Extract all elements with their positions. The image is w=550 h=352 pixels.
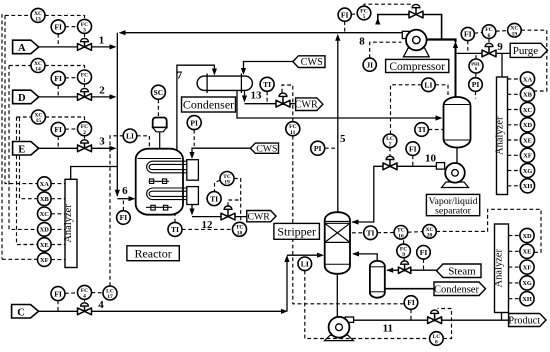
svg-text:11: 11 xyxy=(383,323,393,335)
signal wire analyzer to XH xyxy=(508,185,521,187)
wire feed collector header xyxy=(116,33,118,196)
svg-text:Compressor: Compressor xyxy=(389,61,445,73)
analyzer element XF (product) xyxy=(520,260,534,274)
svg-text:XG: XG xyxy=(523,168,533,175)
analyzer element XD (product) xyxy=(520,228,534,242)
analyzer box (feed analyzer) xyxy=(63,179,77,267)
reactor agitator motor xyxy=(153,118,167,128)
svg-text:CWR: CWR xyxy=(248,211,271,222)
signal wire TI to line 13 xyxy=(266,91,268,103)
signal wire FI to line 10 xyxy=(412,155,414,166)
svg-text:11: 11 xyxy=(290,130,295,136)
signal wire FC6 to purge valve xyxy=(488,38,490,44)
signal wire FC9 to TC16 xyxy=(403,239,405,244)
signal wire FI to line 3 xyxy=(57,136,59,148)
svg-text:17: 17 xyxy=(107,294,113,300)
svg-text:19: 19 xyxy=(224,180,230,186)
svg-text:FI: FI xyxy=(420,248,428,257)
signal wire analyzer to XA xyxy=(508,78,521,80)
signal wire XB branch xyxy=(20,118,38,199)
label Purge xyxy=(510,43,547,57)
compressor body xyxy=(402,31,409,38)
svg-text:XH: XH xyxy=(522,296,532,303)
reactor agitator impeller xyxy=(149,179,169,184)
signal wire FC6-XC19 xyxy=(496,30,508,33)
svg-text:D: D xyxy=(18,93,26,104)
svg-text:15: 15 xyxy=(36,118,42,124)
controller XC14 xyxy=(31,59,45,73)
indicator LI reactor level xyxy=(123,129,137,143)
valve purge (stream 9) xyxy=(482,43,496,56)
svg-text:LI: LI xyxy=(126,132,134,141)
wire stripper overhead stream 5 xyxy=(337,39,339,212)
controller TC19 reactor temperature xyxy=(220,172,234,186)
alarm PHL6 pressure high-low xyxy=(469,59,483,73)
valve D feed (stream 2) xyxy=(78,88,92,100)
svg-text:CWR: CWR xyxy=(295,100,318,111)
svg-text:20: 20 xyxy=(427,233,433,239)
analyzer element XG (purge) xyxy=(520,163,534,177)
signal wire LC17 up to reactor LI xyxy=(110,136,123,286)
svg-text:4: 4 xyxy=(83,294,86,300)
valve condenser cooling water (stream 13) xyxy=(276,93,290,107)
analyzer element XF (feed) xyxy=(38,253,52,267)
reactor agitator shaft xyxy=(159,132,161,150)
controller FC2 xyxy=(78,122,92,136)
analyzer element XD (feed) xyxy=(38,223,52,237)
indicator PI reactor pressure xyxy=(187,116,201,130)
signal wire FC5 to bypass valve xyxy=(364,4,411,6)
controller LC8 stripper level xyxy=(430,332,444,346)
svg-text:Analyzer: Analyzer xyxy=(63,204,74,243)
svg-text:E: E xyxy=(18,144,25,155)
svg-text:16: 16 xyxy=(398,234,404,240)
valve A feed (stream 1) xyxy=(78,38,92,50)
analyzer box (purge analyzer) xyxy=(494,77,507,195)
signal wire LI to reactor top xyxy=(137,136,150,148)
signal wire FC2 to valve xyxy=(84,136,86,139)
svg-text:FI: FI xyxy=(54,74,62,83)
indicator FI purge xyxy=(461,27,474,40)
svg-text:3: 3 xyxy=(83,28,86,34)
svg-text:9: 9 xyxy=(497,41,503,53)
signal wire FC4-LC17 xyxy=(91,292,103,294)
svg-text:C: C xyxy=(17,307,25,318)
svg-text:6: 6 xyxy=(122,185,128,197)
svg-text:TI: TI xyxy=(210,194,218,203)
wire purge line stream 9 xyxy=(456,52,511,54)
controller FC5 recycle xyxy=(357,6,371,20)
svg-text:XG: XG xyxy=(522,280,532,287)
indicator FI stream 2 xyxy=(51,71,65,85)
wire CWS to reactor coil header xyxy=(192,148,250,153)
signal wire FI to product line xyxy=(410,309,412,320)
signal wire analyzer to XG xyxy=(508,170,521,172)
analyzer element XF (purge) xyxy=(520,148,534,162)
analyzer element XB (feed) xyxy=(38,192,52,206)
svg-text:TI: TI xyxy=(171,225,179,234)
signal wire PI to reactor xyxy=(193,130,195,146)
indicator FI stream 6 xyxy=(117,211,131,225)
reboiler weld seams xyxy=(370,266,385,268)
indicator TI reactor temperature xyxy=(207,192,221,206)
indicator PI separator pressure xyxy=(469,78,483,92)
indicator JI compressor power xyxy=(363,58,376,71)
signal wire SC to agitator motor xyxy=(157,99,159,117)
signal wire LI to LC8 xyxy=(305,271,430,339)
signal wire FC11 to valve 13 actuator xyxy=(282,85,293,122)
analyzer element XH (product) xyxy=(520,292,534,306)
controller XC20 composition xyxy=(423,225,437,239)
valve steam (stream 9 heat) xyxy=(398,261,410,273)
indicator FI product xyxy=(404,296,418,310)
svg-text:TI: TI xyxy=(263,80,271,89)
svg-text:PI: PI xyxy=(472,80,480,89)
signal wire analyzer to XE xyxy=(508,139,521,141)
signal wire FI-FC4 xyxy=(65,292,78,295)
signal wire FI to stream 8 line xyxy=(344,21,346,32)
svg-text:Steam: Steam xyxy=(448,265,476,277)
signal wire XE to XC15 xyxy=(17,117,38,245)
svg-text:19: 19 xyxy=(512,31,518,37)
svg-text:JI: JI xyxy=(366,60,373,69)
svg-text:8: 8 xyxy=(435,340,438,346)
controller LC17 xyxy=(103,286,117,300)
svg-text:Purge: Purge xyxy=(513,45,539,57)
svg-text:2: 2 xyxy=(99,85,105,97)
signal wire FC11 down to FI stream 11 xyxy=(293,136,404,304)
compressor recycle bypass line xyxy=(378,15,442,40)
signal wire LC8 to product valve xyxy=(438,309,452,339)
compressor label xyxy=(386,59,449,72)
svg-text:CWS: CWS xyxy=(301,57,323,68)
indicator FI stream 10 xyxy=(406,142,420,156)
signal wire FC1 to valve xyxy=(84,84,86,87)
wire compressor suction from separator xyxy=(426,40,456,43)
svg-text:FI: FI xyxy=(409,144,417,153)
valve E feed (stream 3) xyxy=(78,140,92,152)
label Condenser (condensate) xyxy=(434,282,486,296)
signal wire analyzer to XE product xyxy=(509,250,521,252)
signal wire LC7 to valve 10 xyxy=(389,148,391,157)
indicator FI recycle xyxy=(338,8,351,21)
signal wire XC20 to product analyzer XE xyxy=(436,209,541,252)
separator bottoms pump xyxy=(436,148,468,188)
svg-text:2: 2 xyxy=(83,130,86,136)
sample line purge to analyzer xyxy=(501,53,503,77)
svg-text:Analyzer: Analyzer xyxy=(494,248,505,287)
svg-text:TI: TI xyxy=(418,125,426,134)
analyzer element XC (purge) xyxy=(520,102,534,116)
svg-text:1: 1 xyxy=(83,78,86,84)
svg-text:XB: XB xyxy=(523,92,533,99)
wire CWS into condenser xyxy=(244,62,293,70)
controller FC3 xyxy=(78,19,92,33)
indicator FI steam xyxy=(417,246,431,260)
label CWS reactor cooling water supply xyxy=(250,143,278,154)
svg-text:A: A xyxy=(18,43,26,54)
svg-text:separator: separator xyxy=(435,205,472,216)
svg-text:10: 10 xyxy=(425,153,437,165)
signal wire FI-FC5 xyxy=(351,13,357,16)
svg-text:SC: SC xyxy=(154,88,164,97)
signal wire analyzer to XF product xyxy=(509,266,521,268)
indicator LI separator level xyxy=(422,78,436,92)
controller FC1 xyxy=(78,70,92,84)
signal wire analyzer to XD product xyxy=(509,235,521,237)
vapor/liquid separator vessel xyxy=(444,97,471,148)
svg-text:Reactor: Reactor xyxy=(134,246,171,260)
signal wire XC13 to FC3 xyxy=(45,15,85,19)
svg-text:4: 4 xyxy=(98,299,104,311)
analyzer element XB (purge) xyxy=(520,87,534,101)
controller XC19 purge xyxy=(508,23,522,37)
indicator FI stream 1 xyxy=(51,20,65,34)
signal wire FI-FC2 xyxy=(65,128,78,130)
reactor coil header upper xyxy=(187,160,199,181)
svg-text:FI: FI xyxy=(54,125,62,134)
svg-text:5: 5 xyxy=(363,14,366,20)
controller LC7 separator level xyxy=(383,134,397,148)
svg-text:TI: TI xyxy=(366,229,374,238)
wire stripper bottoms to pump xyxy=(336,274,338,318)
signal wire analyzer to XD xyxy=(508,124,521,126)
signal wire TC19 to TI xyxy=(215,180,221,191)
wire condenser CW outlet stream 13 xyxy=(244,91,246,97)
sample line from feed header to analyzer xyxy=(71,167,118,180)
controller TC18 cooling water xyxy=(233,222,247,236)
signal wire analyzer to XH product xyxy=(509,298,521,300)
analyzer element XG (product) xyxy=(520,276,534,290)
svg-text:18: 18 xyxy=(237,231,243,237)
stripper reboiler vessel xyxy=(370,261,385,298)
svg-text:XA: XA xyxy=(523,76,533,83)
svg-text:Product: Product xyxy=(508,315,540,326)
signal wire XD to XC14 xyxy=(9,66,37,230)
signal wire XC19 to analyzer XB xyxy=(521,30,547,91)
analyzer element XE (feed) xyxy=(38,238,52,252)
svg-text:7: 7 xyxy=(177,70,183,82)
svg-text:LI: LI xyxy=(424,81,432,90)
wire condenser process outlet to separator xyxy=(237,91,437,118)
signal wire XC15 to FC2 xyxy=(45,117,84,122)
signal wire TI-TC16 xyxy=(377,232,394,234)
wire steam line to reboiler xyxy=(387,269,437,271)
feed label E (stream 3) xyxy=(13,142,39,156)
wire reactor feed line 6 xyxy=(117,198,129,200)
signal wire PHL6 to purge line xyxy=(475,53,477,59)
signal wire analyzer to XF xyxy=(508,154,521,156)
condenser heat exchanger shell xyxy=(197,76,252,90)
svg-text:XH: XH xyxy=(523,183,533,190)
signal wire XC to analyzer xyxy=(51,213,65,215)
condenser tube sheet right xyxy=(240,74,242,94)
signal wire XE to analyzer xyxy=(51,244,65,246)
vapor/liquid separator label xyxy=(426,194,479,215)
signal bus from analyzer XF to XC13 region (far left) xyxy=(1,14,3,259)
wire feed line 4 to stripper riser xyxy=(39,310,282,312)
indicator FI stream 4 xyxy=(51,287,65,301)
signal wire FI-FC6 xyxy=(474,31,482,34)
signal wire XA to analyzer xyxy=(51,183,65,185)
analyzer box (product analyzer) xyxy=(494,224,509,313)
reactor bottom baffles xyxy=(146,205,172,210)
indicator TI reactor outlet xyxy=(168,222,182,236)
svg-text:XE: XE xyxy=(523,249,532,256)
svg-text:14: 14 xyxy=(35,67,41,73)
controller FC4 xyxy=(78,285,92,299)
signal wire LI to LC7 xyxy=(391,85,422,134)
signal wire bus stub to XF xyxy=(2,258,37,260)
wire separator vapor riser xyxy=(455,44,457,98)
wire feed line 2 xyxy=(39,96,111,98)
indicator PI stripper pressure xyxy=(311,141,325,155)
signal wire XB to analyzer xyxy=(51,198,65,200)
svg-text:XD: XD xyxy=(522,233,532,240)
svg-text:PI: PI xyxy=(190,118,198,127)
signal wire XC14 to FC1 xyxy=(45,66,85,70)
stripper top seam xyxy=(325,220,350,222)
svg-text:CWS: CWS xyxy=(256,144,277,155)
svg-text:XC: XC xyxy=(40,211,50,218)
svg-text:XA: XA xyxy=(40,181,50,188)
signal wire FI to line 1 xyxy=(57,34,59,47)
analyzer element XA (purge) xyxy=(520,72,534,86)
indicator TI stripper temperature xyxy=(364,226,378,240)
svg-text:FI: FI xyxy=(407,298,415,307)
svg-text:6: 6 xyxy=(488,33,491,39)
label CWR condenser cooling water return xyxy=(295,98,323,111)
signal wire FI to line 2 xyxy=(57,85,59,97)
valve separator liquid (stream 10) xyxy=(383,156,397,169)
svg-text:5: 5 xyxy=(340,133,346,145)
signal wire FI-FC1 xyxy=(65,77,78,79)
wire feed line 1 xyxy=(39,46,111,48)
feed label C (stream 4) xyxy=(12,305,39,319)
wire reactor coil to CWR (stream 12) xyxy=(191,205,193,211)
svg-text:Analyzer: Analyzer xyxy=(494,116,505,155)
signal wire FC3 to valve xyxy=(84,33,86,37)
valve product (stream 11) xyxy=(428,310,442,324)
indicator TI separator temperature xyxy=(415,123,429,137)
reactor top weld seam xyxy=(138,158,182,160)
reactor cooling coil upper xyxy=(147,161,187,173)
controller TC16 stripper temperature xyxy=(394,226,408,240)
signal wire TC19 to TC18 xyxy=(234,179,241,223)
indicator SC agitator speed xyxy=(151,85,165,99)
svg-text:FI: FI xyxy=(464,30,472,39)
svg-text:XE: XE xyxy=(523,137,532,144)
wire feed line 3 xyxy=(39,147,111,149)
signal wire JI to compressor xyxy=(370,42,402,58)
signal wire PI to separator xyxy=(475,91,477,98)
signal wire TI reactor to vessel xyxy=(174,215,176,223)
stripper column vessel xyxy=(325,212,350,274)
signal wire TI to TC18 (stream 12 row) xyxy=(182,228,233,230)
analyzer element XE (product) xyxy=(520,244,534,258)
stripper bottoms pump xyxy=(325,317,354,341)
signal wire FI to steam line xyxy=(423,259,425,270)
svg-text:8: 8 xyxy=(359,36,365,48)
condenser label xyxy=(182,97,236,112)
signal wire FC4 to valve xyxy=(84,299,86,301)
wire reactor overhead stream 7 to condenser xyxy=(177,65,215,150)
svg-text:XD: XD xyxy=(40,227,50,234)
stripper label xyxy=(274,223,320,239)
wire reboiler condensate out xyxy=(385,288,434,290)
wire recycle line stream 8 (top) xyxy=(124,32,403,34)
signal wire LI to separator top xyxy=(435,85,448,98)
svg-text:Condenser: Condenser xyxy=(183,98,234,112)
reactor coil header lower xyxy=(187,187,199,205)
signal wire XA to XC13 xyxy=(5,15,37,183)
signal wire analyzer to XB xyxy=(508,93,521,95)
signal wire valve 12 actuator xyxy=(228,200,241,206)
svg-text:13: 13 xyxy=(251,90,263,102)
signal wire TC16-XC20 xyxy=(408,231,423,234)
signal wire FI-FC3 xyxy=(65,26,78,28)
svg-text:XD: XD xyxy=(523,122,533,129)
wire separator liquid stream 10 to stripper xyxy=(352,166,436,222)
valve reactor cooling water (stream 12) xyxy=(221,206,235,220)
indicator FI stream 3 xyxy=(51,122,65,136)
valve C feed (stream 4) xyxy=(78,303,92,315)
controller FC6 purge xyxy=(482,25,496,39)
analyzer element XH (purge) xyxy=(520,179,534,193)
svg-text:9: 9 xyxy=(402,252,405,258)
svg-text:XE: XE xyxy=(40,242,49,249)
signal wire FI to purge line xyxy=(467,41,469,54)
signal wire TI to separator xyxy=(428,129,443,131)
analyzer element XC (feed) xyxy=(38,207,52,221)
svg-text:3: 3 xyxy=(99,136,105,148)
svg-text:XB: XB xyxy=(40,196,50,203)
signal wire analyzer to XC xyxy=(508,109,521,111)
signal wire XF to analyzer xyxy=(51,259,65,261)
indicator TI condenser CW xyxy=(260,77,274,91)
controller XC13 xyxy=(31,8,45,22)
feed label A (stream 1) xyxy=(13,40,39,54)
reactor vessel xyxy=(136,149,183,215)
analyzer element XD (purge) xyxy=(520,118,534,132)
analyzer element XA (feed) xyxy=(38,177,52,191)
label Steam xyxy=(437,264,482,278)
svg-text:FI: FI xyxy=(120,213,128,222)
svg-text:XF: XF xyxy=(523,153,532,160)
signal wire XC13 branch xyxy=(5,14,31,16)
label Product xyxy=(508,314,546,327)
wire reboiler vapor return to stripper xyxy=(354,254,378,261)
signal wire XD to analyzer xyxy=(51,228,65,230)
svg-text:FI: FI xyxy=(54,289,62,298)
signal wire FI to line 6 xyxy=(122,199,124,211)
label CWR reactor cooling water return xyxy=(247,211,276,223)
svg-text:FI: FI xyxy=(341,10,349,19)
svg-text:Condenser: Condenser xyxy=(434,284,479,295)
svg-text:XC: XC xyxy=(523,107,533,114)
sample line product to analyzer xyxy=(501,313,503,321)
condenser tube sheet left xyxy=(206,74,208,94)
signal wire FC9 to steam valve xyxy=(403,258,405,262)
stripper packing section xyxy=(325,223,350,242)
indicator LI stripper level xyxy=(298,257,312,271)
signal wire PHL6-PI xyxy=(475,73,477,78)
wire product line stream 11 xyxy=(354,319,509,321)
svg-text:XF: XF xyxy=(40,257,49,264)
signal wire TI to stripper xyxy=(352,232,364,234)
svg-text:PI: PI xyxy=(314,144,322,153)
controller FC9 steam xyxy=(397,244,411,258)
